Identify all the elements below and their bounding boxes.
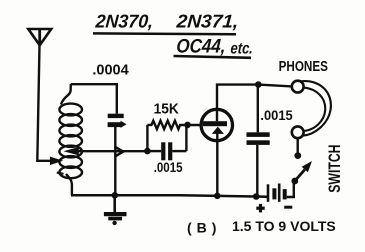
node junction dot ground <box>112 192 119 199</box>
coil bottom-left tail tick <box>57 173 64 174</box>
svg-text:.0015: .0015 <box>260 108 293 124</box>
battery plus sign <box>256 204 264 213</box>
wire battery to switch <box>287 182 294 198</box>
label OC44, etc. <box>176 34 254 58</box>
capacitor C3 .0015 shunt <box>247 85 270 197</box>
svg-text:.0015: .0015 <box>154 160 183 175</box>
battery minus sign <box>284 206 292 209</box>
wire RC left stub <box>146 125 148 151</box>
antenna tap arrowhead into coil <box>50 157 63 165</box>
coil tap arrowhead <box>64 147 79 155</box>
battery B1 <box>268 184 285 202</box>
wire C1 bottom down to ground rail (crossover) <box>114 126 116 195</box>
svg-text:etc.: etc. <box>230 40 253 58</box>
node junction dot RC right <box>184 122 191 129</box>
wire antenna stem down to tap corner <box>37 46 50 161</box>
variable capacitor C1 .0004 <box>108 114 127 128</box>
ground symbol <box>104 195 127 225</box>
node junction dot top rail <box>255 81 262 88</box>
svg-text:SWITCH: SWITCH <box>327 144 345 192</box>
underline 2 <box>174 56 252 58</box>
svg-text:(B): (B) <box>187 220 221 236</box>
svg-text:PHONES: PHONES <box>279 58 328 75</box>
label 2N370, 2N371, <box>94 10 239 32</box>
svg-text:15K: 15K <box>154 100 180 116</box>
tap line chevron arrowhead at C1 lead crossing <box>115 147 124 157</box>
phones jack terminals and earpiece <box>292 81 331 139</box>
wire coil top to C1 top <box>71 84 117 114</box>
svg-text:2N371,: 2N371, <box>175 12 239 33</box>
wire coil tap line to RC node <box>79 150 148 152</box>
svg-text:2N370,: 2N370, <box>94 10 154 31</box>
resistor R1 15K <box>147 121 200 129</box>
node junction dot RC left <box>144 148 151 155</box>
capacitor C2 .0015 series <box>147 142 186 160</box>
ground rail wire <box>71 195 268 197</box>
antenna <box>28 29 51 45</box>
svg-text:OC44,: OC44, <box>176 34 227 56</box>
switch SW1 <box>291 138 312 184</box>
transistor Q1 <box>201 109 232 140</box>
coil L1 <box>59 84 82 195</box>
node junction dot C3-rail <box>253 193 260 200</box>
svg-text:.0004: .0004 <box>92 63 128 79</box>
wire emitter down to rail <box>216 134 218 196</box>
wire collector up and top rail to phones <box>217 85 292 122</box>
svg-text:1.5 TO 9 VOLTS: 1.5 TO 9 VOLTS <box>232 218 336 234</box>
underline 1 <box>93 32 236 35</box>
node junction dot emitter-rail <box>214 193 221 200</box>
wire RC right stub <box>185 125 187 151</box>
